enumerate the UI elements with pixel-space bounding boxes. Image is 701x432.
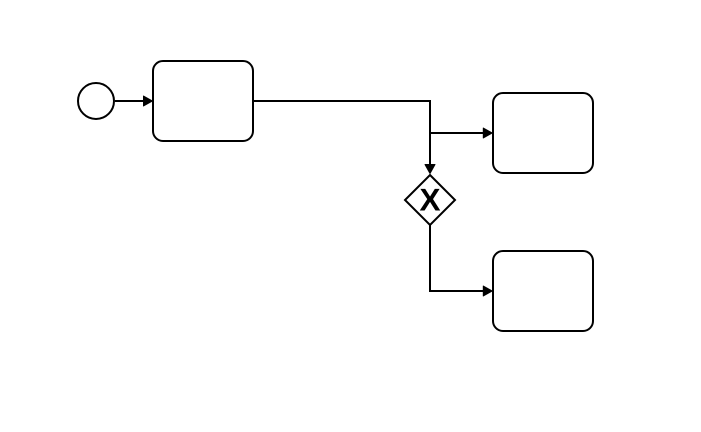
- task T3: [493, 251, 593, 331]
- arrowhead flow4: [483, 286, 492, 296]
- arrowhead flow1: [144, 96, 153, 106]
- arrowhead flow3: [483, 128, 492, 138]
- gateway XOR marker X: [420, 189, 440, 211]
- arrowhead flow2: [425, 165, 435, 174]
- task T2: [493, 93, 593, 173]
- wire flow2 task1->gateway: [253, 101, 430, 165]
- wire flow3 branch->task2: [430, 132, 484, 134]
- wire flow1 start->task1: [115, 100, 144, 102]
- gateway XOR G1: [405, 175, 455, 225]
- start event: [78, 83, 114, 119]
- wire flow4 gateway->task3: [430, 225, 484, 291]
- task T1: [153, 61, 253, 141]
